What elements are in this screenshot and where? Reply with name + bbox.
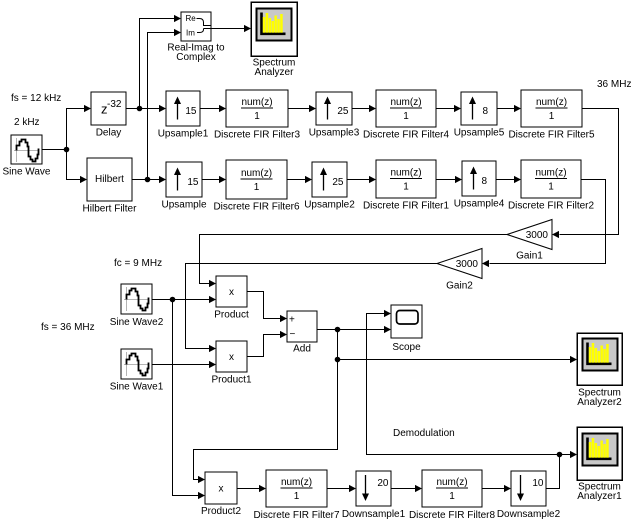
svg-text:8: 8 xyxy=(482,106,488,117)
svg-text:2 kHz: 2 kHz xyxy=(14,117,40,128)
wire Downsample2 to Spectrum Analyzer1 xyxy=(546,451,577,489)
wire Upsample4 to Discrete FIR Filter2 xyxy=(496,176,521,183)
svg-text:Downsample2: Downsample2 xyxy=(497,509,561,520)
block Discrete FIR Filter6 xyxy=(213,160,300,213)
block Discrete FIR Filter4 xyxy=(363,90,450,141)
block Gain1 xyxy=(507,220,552,262)
svg-text:Discrete FIR Filter4: Discrete FIR Filter4 xyxy=(363,130,450,141)
wire Discrete FIR Filter1 to Upsample4 xyxy=(436,176,462,183)
svg-text:Product: Product xyxy=(214,310,249,321)
svg-text:3000: 3000 xyxy=(456,259,479,270)
svg-text:Discrete FIR Filter3: Discrete FIR Filter3 xyxy=(214,130,301,141)
block Product1 xyxy=(211,341,251,386)
annotation fc = 9 MHz xyxy=(114,258,162,269)
svg-text:Sine Wave: Sine Wave xyxy=(3,167,51,178)
block Discrete FIR Filter8 xyxy=(409,470,496,521)
svg-text:Upsample3: Upsample3 xyxy=(309,128,360,139)
block Hilbert Filter xyxy=(83,158,138,215)
svg-text:Delay: Delay xyxy=(96,128,122,139)
block Discrete FIR Filter2 xyxy=(508,160,595,212)
block Product2 xyxy=(201,472,241,517)
block Discrete FIR Filter1 xyxy=(363,160,450,212)
svg-text:Im: Im xyxy=(186,29,195,38)
svg-text:num(z): num(z) xyxy=(536,97,567,108)
svg-text:1: 1 xyxy=(254,111,260,122)
svg-text:36 MHz: 36 MHz xyxy=(597,79,631,90)
svg-text:Upsample5: Upsample5 xyxy=(454,128,505,139)
wire Sine Wave2 to Product2 xyxy=(173,300,206,500)
wire Hilbert to Real-Imag Im input xyxy=(148,29,182,180)
annotation 36 MHz xyxy=(597,79,631,90)
svg-text:Downsample1: Downsample1 xyxy=(342,509,406,520)
svg-text:1: 1 xyxy=(254,182,260,193)
svg-text:8: 8 xyxy=(481,176,487,187)
svg-text:Sine Wave2: Sine Wave2 xyxy=(110,317,164,328)
wire Upsample5 to Discrete FIR Filter5 xyxy=(497,105,521,112)
svg-text:1: 1 xyxy=(403,182,409,193)
wire Gain1 to Product xyxy=(200,235,508,288)
block Delay xyxy=(91,92,126,139)
junction node Sine Wave2 output xyxy=(170,297,176,303)
block Gain2 xyxy=(437,249,482,292)
block Upsample3 xyxy=(309,92,360,139)
junction node demod branch xyxy=(335,357,341,363)
annotation fs = 12 kHz xyxy=(11,93,61,104)
block Discrete FIR Filter5 xyxy=(508,90,595,141)
svg-text:Gain1: Gain1 xyxy=(516,251,543,262)
wire Add output to Spectrum Analyzer2 xyxy=(338,330,578,364)
svg-text:Complex: Complex xyxy=(176,52,215,63)
svg-text:Gain2: Gain2 xyxy=(446,281,473,292)
svg-text:−: − xyxy=(290,329,296,340)
wire Add output to Product2 xyxy=(194,360,338,484)
svg-text:1: 1 xyxy=(449,491,455,502)
svg-text:Sine Wave1: Sine Wave1 xyxy=(110,382,164,393)
wire Discrete FIR Filter2 to Gain2 xyxy=(482,180,606,268)
block Upsample2 xyxy=(304,162,355,211)
wire Sine Wave to Hilbert Filter xyxy=(67,150,88,184)
svg-text:Discrete FIR Filter2: Discrete FIR Filter2 xyxy=(508,201,595,212)
svg-text:Analyzer: Analyzer xyxy=(255,67,295,78)
block Product xyxy=(214,276,249,321)
svg-text:Add: Add xyxy=(293,344,311,355)
wire Hilbert Filter to Upsample xyxy=(132,176,166,183)
svg-text:num(z): num(z) xyxy=(281,477,312,488)
wire Upsample to Discrete FIR Filter6 xyxy=(202,176,226,183)
junction node demod output xyxy=(557,452,563,458)
wire Delay to Real-Imag Re input xyxy=(140,15,182,109)
wire Downsample1 to Discrete FIR Filter8 xyxy=(391,485,422,492)
annotation fs = 36 MHz xyxy=(41,322,95,333)
block Sine Wave1 xyxy=(110,349,164,393)
block Sine Wave2 xyxy=(110,284,164,328)
junction node Add output xyxy=(335,327,341,333)
svg-text:1: 1 xyxy=(294,491,300,502)
wire Product2 to Discrete FIR Filter7 xyxy=(237,485,266,492)
wire Product1 to Add xyxy=(247,331,287,357)
svg-text:x: x xyxy=(229,352,234,363)
wire Upsample3 to Discrete FIR Filter4 xyxy=(352,105,376,112)
svg-text:x: x xyxy=(219,484,224,495)
svg-text:Discrete FIR Filter7: Discrete FIR Filter7 xyxy=(253,510,340,521)
wire Sine Wave to Delay xyxy=(67,105,92,150)
wire Real-Imag to Spectrum Analyzer xyxy=(211,25,251,32)
svg-text:15: 15 xyxy=(185,106,197,117)
svg-text:num(z): num(z) xyxy=(535,168,566,179)
block Scope xyxy=(391,305,422,353)
wire demod output to Scope xyxy=(367,310,560,455)
svg-text:Scope: Scope xyxy=(392,342,421,353)
junction node Delay output xyxy=(137,106,143,112)
block Discrete FIR Filter3 xyxy=(214,90,301,141)
annotation 2 kHz xyxy=(14,117,40,128)
block Downsample1 xyxy=(342,471,406,520)
svg-text:15: 15 xyxy=(187,177,199,188)
wire Discrete FIR Filter3 to Upsample3 xyxy=(288,105,316,112)
svg-text:20: 20 xyxy=(377,478,389,489)
block Discrete FIR Filter7 xyxy=(253,470,340,521)
svg-text:Re: Re xyxy=(186,14,197,23)
svg-text:Discrete FIR Filter8: Discrete FIR Filter8 xyxy=(409,510,496,521)
svg-text:Upsample2: Upsample2 xyxy=(304,200,355,211)
wire Sine Wave1 to Product1 xyxy=(152,361,216,368)
svg-text:num(z): num(z) xyxy=(390,168,421,179)
svg-text:Demodulation: Demodulation xyxy=(393,428,455,439)
block Upsample xyxy=(161,162,206,211)
wire Discrete FIR Filter6 to Upsample2 xyxy=(287,176,312,183)
block Spectrum Analyzer xyxy=(251,2,297,78)
svg-text:fs = 12 kHz: fs = 12 kHz xyxy=(11,93,61,104)
block Add xyxy=(287,311,317,355)
svg-text:num(z): num(z) xyxy=(390,97,421,108)
wire Product to Add xyxy=(247,292,287,323)
svg-text:x: x xyxy=(229,287,234,298)
wire Sine Wave2 to Product xyxy=(152,296,216,303)
wire Discrete FIR Filter7 to Downsample1 xyxy=(327,485,356,492)
svg-text:Upsample1: Upsample1 xyxy=(158,129,209,140)
block Upsample4 xyxy=(454,161,505,210)
annotation Demodulation xyxy=(393,428,455,439)
svg-text:Analyzer1: Analyzer1 xyxy=(577,491,622,502)
svg-text:Discrete FIR Filter5: Discrete FIR Filter5 xyxy=(508,130,595,141)
block Upsample1 xyxy=(158,91,209,140)
block Real-Imag to Complex xyxy=(167,12,225,63)
wire Add to Scope xyxy=(317,326,391,333)
svg-text:Discrete FIR Filter1: Discrete FIR Filter1 xyxy=(363,201,450,212)
junction node Sine Wave output xyxy=(64,147,70,153)
svg-text:1: 1 xyxy=(549,111,555,122)
svg-text:1: 1 xyxy=(548,182,554,193)
svg-text:Analyzer2: Analyzer2 xyxy=(577,397,622,408)
block Sine Wave xyxy=(3,135,51,178)
svg-text:num(z): num(z) xyxy=(436,477,467,488)
svg-text:3000: 3000 xyxy=(526,230,549,241)
svg-text:25: 25 xyxy=(332,177,344,188)
wire Discrete FIR Filter5 to Gain1 xyxy=(552,109,619,239)
svg-text:fc = 9 MHz: fc = 9 MHz xyxy=(114,258,162,269)
wire Delay to Upsample1 xyxy=(126,105,166,112)
svg-text:num(z): num(z) xyxy=(241,168,272,179)
svg-text:Hilbert: Hilbert xyxy=(95,174,124,185)
block Spectrum Analyzer2 xyxy=(577,333,622,408)
block Spectrum Analyzer1 xyxy=(577,427,622,502)
svg-text:Discrete FIR Filter6: Discrete FIR Filter6 xyxy=(213,202,300,213)
svg-text:Hilbert Filter: Hilbert Filter xyxy=(83,204,138,215)
svg-text:fs = 36 MHz: fs = 36 MHz xyxy=(41,322,95,333)
svg-text:num(z): num(z) xyxy=(241,97,272,108)
wire Upsample2 to Discrete FIR Filter1 xyxy=(347,176,376,183)
wire Discrete FIR Filter8 to Downsample2 xyxy=(482,485,511,492)
block Upsample5 xyxy=(454,92,505,139)
wire Upsample1 to Discrete FIR Filter3 xyxy=(200,105,226,112)
svg-text:Upsample4: Upsample4 xyxy=(454,199,505,210)
svg-text:+: + xyxy=(289,315,295,326)
junction node Hilbert output xyxy=(145,177,151,183)
block Downsample2 xyxy=(497,471,561,520)
svg-text:10: 10 xyxy=(532,478,544,489)
wire Sine Wave output xyxy=(42,149,67,151)
svg-text:1: 1 xyxy=(403,111,409,122)
svg-text:-32: -32 xyxy=(107,99,122,110)
wire Gain2 to Product1 xyxy=(186,264,438,353)
svg-text:Product1: Product1 xyxy=(211,375,251,386)
wire Discrete FIR Filter4 to Upsample5 xyxy=(436,105,461,112)
svg-text:25: 25 xyxy=(337,106,349,117)
svg-text:Product2: Product2 xyxy=(201,506,241,517)
svg-text:Upsample: Upsample xyxy=(161,200,206,211)
